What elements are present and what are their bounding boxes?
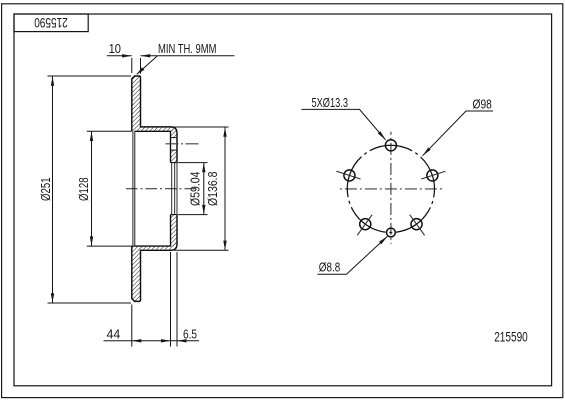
hatch: plate bottom [132,246,141,301]
hatch: plate top [132,76,141,131]
bolt hole in hat wall (section) [171,138,178,151]
min thickness note MIN TH. 9MM with leader [137,56,235,75]
svg-text:215590: 215590 [494,330,528,345]
svg-text:215590: 215590 [34,15,68,30]
bolt hole centerline (section) [166,143,201,145]
bolt circle Ø98 [347,145,434,232]
hatch: bottom strip [141,240,178,250]
radial centerline lower left hole [357,215,372,236]
svg-text:44: 44 [107,326,121,341]
radial centerline lower right hole [410,215,425,236]
svg-text:Ø98: Ø98 [473,96,492,111]
hatch: top strip [141,127,178,131]
bore silhouette lines [172,163,177,215]
radial centerline upper left hole [336,171,360,179]
hatch: wall top segment [171,127,178,138]
horizontal centerline (right view) [337,188,444,190]
hatch: wall below bore [171,215,178,247]
set screw hole Ø8.8 [387,228,396,237]
center bore edges [171,163,178,215]
section centerline (horizontal, left view) [126,188,199,190]
svg-text:Ø251: Ø251 [38,177,53,201]
disc plate + hat outer outline [132,76,177,301]
hatch: wall above bore [171,150,178,163]
bolt hole top [385,140,396,151]
hat inner outline (strip undersides and wall faces) [135,131,171,246]
svg-text:5XØ13.3: 5XØ13.3 [312,95,349,110]
bolt hole upper right [427,170,438,181]
svg-text:Ø8.8: Ø8.8 [319,260,340,275]
swan-neck silhouette lines [133,131,135,246]
dimension Ø136.8 [174,127,229,250]
svg-text:MIN TH. 9MM: MIN TH. 9MM [158,41,217,56]
svg-text:Ø136.8: Ø136.8 [205,172,220,207]
label Ø8.8 with leader [318,236,388,274]
bolt hole lower left [360,219,371,230]
svg-text:Ø59.04: Ø59.04 [188,172,203,207]
svg-text:10: 10 [109,41,121,56]
svg-text:Ø128: Ø128 [76,177,91,201]
dimension Ø251 [48,76,132,303]
label 5XØ13.3 with leader [302,109,386,139]
dimension 44 / 6.5 (bottom) [104,252,200,347]
dimension Ø128 [87,131,135,246]
bolt hole upper left [344,170,355,181]
dimension Ø59.04 [178,163,208,215]
label Ø98 with leader [423,111,494,156]
bolt hole lower right [411,219,422,230]
radial centerline upper right hole [421,171,445,179]
dimension 10 (disc thickness) [107,56,157,74]
title box top-left [14,14,88,32]
svg-text:6.5: 6.5 [183,327,197,342]
vertical centerline (right view) [390,132,392,244]
